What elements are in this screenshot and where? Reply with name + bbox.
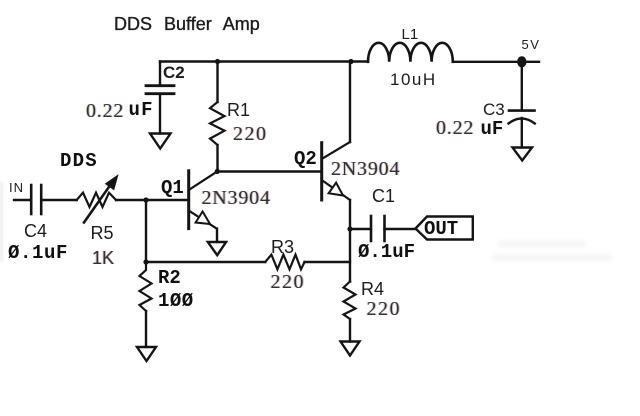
wire top rail [160, 60, 351, 62]
wire 5V stub [527, 61, 540, 63]
label Q2 [294, 148, 317, 170]
capacitor C1 [350, 216, 416, 241]
value R2 100 [158, 290, 194, 312]
label C2 [163, 63, 185, 83]
value L1 10uH [390, 70, 437, 90]
port OUT tag [416, 217, 473, 240]
value Q2 2N3904 [331, 158, 400, 181]
ground (C2) [150, 134, 171, 149]
inductor L1 [351, 43, 517, 62]
label R4 [361, 279, 384, 300]
node C (Q1 collector) [215, 169, 220, 174]
node D (Q1 base / R2) [143, 197, 148, 202]
wire Q1 base [146, 199, 189, 201]
value R4 220 [367, 298, 402, 321]
label 5V [522, 37, 541, 52]
value C3 uF [481, 118, 504, 140]
resistor R2 [140, 262, 152, 347]
value C2 0.22 [86, 100, 124, 123]
node 5V [517, 56, 526, 67]
label C3 [483, 100, 505, 120]
label R1 [227, 100, 250, 121]
node A (top rail / R1) [215, 59, 220, 64]
label R3 [271, 237, 294, 258]
value C4 0.1uF [8, 242, 68, 264]
transistor Q1 [189, 171, 218, 242]
capacitor C3 [509, 62, 535, 148]
wire Q2 base [218, 170, 322, 172]
value R3 220 [271, 271, 306, 294]
label DDS [60, 150, 98, 172]
wire base to R2 [145, 200, 147, 262]
label OUT [424, 218, 458, 240]
ground (C3) [513, 148, 533, 161]
resistor R4 [344, 229, 356, 342]
label C1 [372, 186, 395, 207]
label Q1 [161, 177, 184, 199]
resistor R3 [146, 255, 350, 270]
value C1 0.1uF [358, 241, 415, 263]
label R5 [91, 223, 114, 244]
wire IN lead [14, 199, 31, 201]
resistor R1 [210, 62, 225, 172]
label L1 [402, 26, 419, 43]
potentiometer R5 [77, 175, 146, 222]
label R2 [158, 267, 181, 289]
node F (Q2 emitter / C1 / R4) [347, 226, 352, 231]
capacitor C2 [146, 62, 174, 134]
label IN [9, 180, 24, 195]
value Q1 2N3904 [202, 187, 271, 210]
capacitor C4 [31, 185, 76, 214]
transistor Q2 [322, 62, 350, 230]
value R1 220 [233, 123, 268, 146]
ground (R2) [137, 347, 156, 361]
label C4 [24, 221, 47, 242]
node B (top rail / Q2 collector) [348, 59, 353, 64]
ground (R4) [341, 342, 360, 356]
ground (Q1 emitter) [208, 242, 226, 255]
title [114, 14, 260, 35]
erased smudge artifacts [498, 241, 586, 247]
value R5 1K [92, 248, 114, 269]
value C3 0.22 [436, 117, 474, 140]
node E (R2 / R3) [143, 259, 148, 264]
value C2 uF [129, 99, 154, 121]
